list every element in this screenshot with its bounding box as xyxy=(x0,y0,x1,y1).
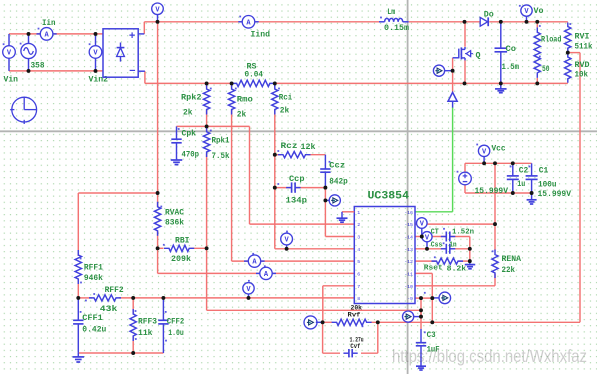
svg-text:Ccp: Ccp xyxy=(289,175,305,184)
svg-text:Rpk2: Rpk2 xyxy=(181,94,202,103)
svg-text:470p: 470p xyxy=(182,151,200,160)
svg-text:43k: 43k xyxy=(100,305,118,314)
ammeter Iin xyxy=(37,33,41,35)
svg-text:UC3854: UC3854 xyxy=(368,191,410,203)
svg-text:-14: -14 xyxy=(404,235,413,241)
svg-text:0.15m: 0.15m xyxy=(384,24,409,33)
wire gate drive (green) xyxy=(415,211,452,213)
resistor RVI xyxy=(565,23,571,53)
wire xyxy=(158,272,355,274)
svg-text:2: 2 xyxy=(357,222,360,228)
svg-text:Vo: Vo xyxy=(534,7,544,16)
voltmeter Vin xyxy=(8,34,10,46)
svg-text:134p: 134p xyxy=(286,197,308,206)
resistor RFF2 xyxy=(89,295,121,301)
wire xyxy=(144,21,379,23)
wire xyxy=(465,162,532,164)
ground xyxy=(171,159,183,161)
svg-text:+: + xyxy=(129,31,135,43)
wire xyxy=(420,310,422,316)
svg-text:6: 6 xyxy=(357,272,360,278)
svg-text:12k: 12k xyxy=(301,143,316,152)
svg-text:Rcz: Rcz xyxy=(281,142,298,151)
svg-text:RVD: RVD xyxy=(575,61,590,70)
capacitor Cvf xyxy=(343,352,349,354)
wire xyxy=(206,83,208,87)
voltmeter (CT pin14) xyxy=(426,242,428,249)
ammeter A1 xyxy=(244,260,248,262)
resistor Rmo xyxy=(228,84,234,115)
wire xyxy=(9,33,103,35)
wire xyxy=(249,126,251,224)
svg-text:Do: Do xyxy=(484,10,494,19)
svg-text:-11: -11 xyxy=(404,272,413,278)
voltmeter Vin2 xyxy=(95,34,97,46)
voltmeter (Rci sense) xyxy=(286,245,288,249)
svg-text:15.999V: 15.999V xyxy=(475,187,509,196)
svg-text:−: − xyxy=(129,66,135,78)
current probe xyxy=(329,195,340,206)
wire xyxy=(207,309,421,311)
svg-text:Rmo: Rmo xyxy=(237,96,253,105)
resistor Rload xyxy=(534,27,540,78)
wire xyxy=(464,22,466,47)
svg-text:209k: 209k xyxy=(171,255,191,264)
probe pin11 node xyxy=(439,292,451,304)
svg-text:1u: 1u xyxy=(517,180,525,189)
wire xyxy=(78,297,92,299)
svg-text:Cvf: Cvf xyxy=(350,343,360,350)
svg-text:Ccz: Ccz xyxy=(329,162,345,171)
svg-text:CT: CT xyxy=(431,228,439,236)
svg-text:-16: -16 xyxy=(404,210,413,216)
svg-text:Lm: Lm xyxy=(387,8,395,17)
svg-text:CFF2: CFF2 xyxy=(167,318,185,327)
svg-text:RVAC: RVAC xyxy=(165,209,184,218)
resistor Rcz xyxy=(278,152,311,158)
svg-text:Cpk: Cpk xyxy=(182,130,197,139)
svg-text:RFF3: RFF3 xyxy=(138,318,157,327)
svg-text:4: 4 xyxy=(357,247,360,253)
svg-text:15.999V: 15.999V xyxy=(538,190,572,199)
svg-text:836k: 836k xyxy=(165,219,184,228)
svg-text:Css: Css xyxy=(431,242,443,250)
svg-text:3: 3 xyxy=(357,235,360,241)
svg-text:RFF1: RFF1 xyxy=(84,263,103,272)
svg-text:C2: C2 xyxy=(519,167,529,176)
wire xyxy=(494,274,496,286)
junction dots xyxy=(156,20,160,24)
svg-text:0.42u: 0.42u xyxy=(82,326,106,335)
svg-text:5: 5 xyxy=(357,259,360,265)
svg-text:7.5k: 7.5k xyxy=(212,152,230,161)
svg-text:1n: 1n xyxy=(449,242,457,250)
svg-text:50: 50 xyxy=(542,65,550,74)
capacitor CFF2 xyxy=(162,298,164,320)
gate probe xyxy=(433,65,444,76)
svg-text:-12: -12 xyxy=(404,259,413,265)
wire xyxy=(158,247,164,249)
on-off controller xyxy=(448,92,457,101)
wire xyxy=(157,22,159,207)
capacitor Ccp xyxy=(286,187,292,189)
svg-text:0.04: 0.04 xyxy=(245,71,264,80)
wire xyxy=(78,192,157,194)
wire xyxy=(231,83,233,87)
resistor RS xyxy=(232,80,275,86)
resistor Rpk2 xyxy=(203,84,209,115)
capacitor Css xyxy=(441,248,447,250)
wire xyxy=(323,285,355,287)
wire xyxy=(568,52,580,54)
diode bridge BD1 xyxy=(103,29,138,77)
wire xyxy=(78,352,163,354)
inductor Lm xyxy=(379,21,385,23)
diode Do xyxy=(480,17,487,26)
svg-text:842p: 842p xyxy=(329,178,348,187)
svg-text:1.0u: 1.0u xyxy=(168,329,184,338)
svg-text:Q: Q xyxy=(476,52,481,61)
svg-text:Rvf: Rvf xyxy=(348,312,361,319)
resistor RVD xyxy=(565,53,571,83)
svg-text:CFF1: CFF1 xyxy=(82,314,103,323)
ac source VS 358 xyxy=(28,34,30,44)
wire xyxy=(415,297,432,299)
wire xyxy=(177,125,250,127)
wire xyxy=(415,248,446,250)
svg-text:https://blog.csdn.net/Wxhxfaz: https://blog.csdn.net/Wxhxfaz xyxy=(392,346,587,366)
svg-text:Co: Co xyxy=(506,45,517,54)
ground xyxy=(465,264,476,266)
resistor Rvf xyxy=(332,319,372,325)
resistor RFF1 xyxy=(75,250,81,284)
svg-text:2k: 2k xyxy=(183,109,193,118)
wire xyxy=(415,223,495,225)
wire xyxy=(132,298,134,314)
ground xyxy=(527,199,537,201)
svg-text:1: 1 xyxy=(357,210,360,216)
wire xyxy=(452,58,454,93)
svg-text:511k: 511k xyxy=(575,42,593,51)
orientation marks xyxy=(210,88,212,90)
wire xyxy=(415,272,432,274)
capacitor C2 xyxy=(512,163,514,176)
svg-text:Rpk1: Rpk1 xyxy=(212,137,230,146)
svg-text:Vin: Vin xyxy=(4,76,19,85)
wire xyxy=(469,237,471,262)
svg-text:-15: -15 xyxy=(404,222,413,228)
wire xyxy=(143,22,145,34)
voltmeter node probe V (rectified) xyxy=(157,15,159,22)
svg-text:C1: C1 xyxy=(539,167,549,176)
resistor RENA xyxy=(492,250,498,279)
ground xyxy=(416,365,426,367)
capacitor CFF1 xyxy=(77,298,79,320)
svg-text:20k: 20k xyxy=(351,305,363,312)
transistor Q (MOSFET) xyxy=(453,57,459,59)
svg-text:RENA: RENA xyxy=(502,255,522,264)
wire xyxy=(415,236,446,238)
wire xyxy=(9,70,103,72)
svg-text:Iin: Iin xyxy=(42,19,56,28)
ground xyxy=(495,88,507,90)
wire xyxy=(145,82,232,84)
svg-text:8.2k: 8.2k xyxy=(447,265,467,273)
svg-text:7: 7 xyxy=(357,284,360,290)
svg-text:-9: -9 xyxy=(407,296,413,302)
resistor RFF3 xyxy=(130,309,136,341)
wire xyxy=(275,154,281,156)
resistor RBI xyxy=(164,245,194,251)
ammeter A2 xyxy=(256,272,260,274)
svg-text:1.52n: 1.52n xyxy=(452,229,474,237)
svg-text:-10: -10 xyxy=(404,284,413,290)
clock element xyxy=(12,97,37,122)
capacitor C1 xyxy=(531,163,533,176)
svg-text:RBI: RBI xyxy=(175,237,190,246)
svg-text:22k: 22k xyxy=(502,266,516,275)
wire xyxy=(415,285,495,287)
wire xyxy=(324,188,326,237)
resistor Rpk1 xyxy=(203,127,209,157)
page boundary line horizontal xyxy=(0,130,597,132)
voltmeter Vcc xyxy=(483,157,485,164)
resistor Rset xyxy=(432,258,464,264)
wire xyxy=(415,260,437,262)
svg-text:2k: 2k xyxy=(280,107,290,116)
svg-text:946k: 946k xyxy=(84,274,103,283)
capacitor C3 xyxy=(420,329,422,343)
wire xyxy=(323,321,332,323)
wire pin1 xyxy=(342,211,354,213)
wire xyxy=(322,322,324,353)
wire xyxy=(274,83,276,87)
svg-text:Rload: Rload xyxy=(541,36,562,45)
resistor Rci xyxy=(272,84,278,115)
voltmeter (vrms sense) xyxy=(248,294,250,298)
probe vaout node xyxy=(304,316,317,329)
op-amp IC U1 UC3854 xyxy=(354,207,415,304)
voltmeter (Vcc pin15) xyxy=(421,228,423,236)
svg-text:RVI: RVI xyxy=(575,33,590,42)
capacitor Co xyxy=(500,22,502,48)
svg-text:358: 358 xyxy=(31,62,45,71)
ground xyxy=(73,356,85,358)
dc source S1 15.999V xyxy=(459,172,472,185)
svg-text:100u: 100u xyxy=(538,180,557,189)
ammeter Iind xyxy=(238,21,242,23)
probe pin9 node xyxy=(403,311,414,322)
svg-text:C3: C3 xyxy=(427,331,436,340)
svg-text:Iind: Iind xyxy=(251,30,271,39)
wire xyxy=(275,187,292,189)
svg-text:RFF2: RFF2 xyxy=(105,286,124,295)
ground pin1 xyxy=(341,212,343,218)
svg-text:2k: 2k xyxy=(237,111,247,120)
svg-text:-13: -13 xyxy=(404,247,413,253)
capacitor Ccz xyxy=(324,155,326,169)
svg-text:Vcc: Vcc xyxy=(492,144,506,153)
svg-text:1.5m: 1.5m xyxy=(502,63,520,72)
capacitor CT xyxy=(441,236,447,238)
capacitor Cpk xyxy=(176,126,178,139)
svg-text:Rset: Rset xyxy=(424,265,443,273)
page boundary line vertical xyxy=(407,0,409,374)
svg-text:11k: 11k xyxy=(138,329,153,338)
svg-text:10k: 10k xyxy=(575,70,589,79)
resistor RVAC xyxy=(154,202,160,236)
svg-text:Rci: Rci xyxy=(279,94,293,103)
voltmeter Vo xyxy=(526,16,528,22)
svg-text:8: 8 xyxy=(357,296,360,302)
